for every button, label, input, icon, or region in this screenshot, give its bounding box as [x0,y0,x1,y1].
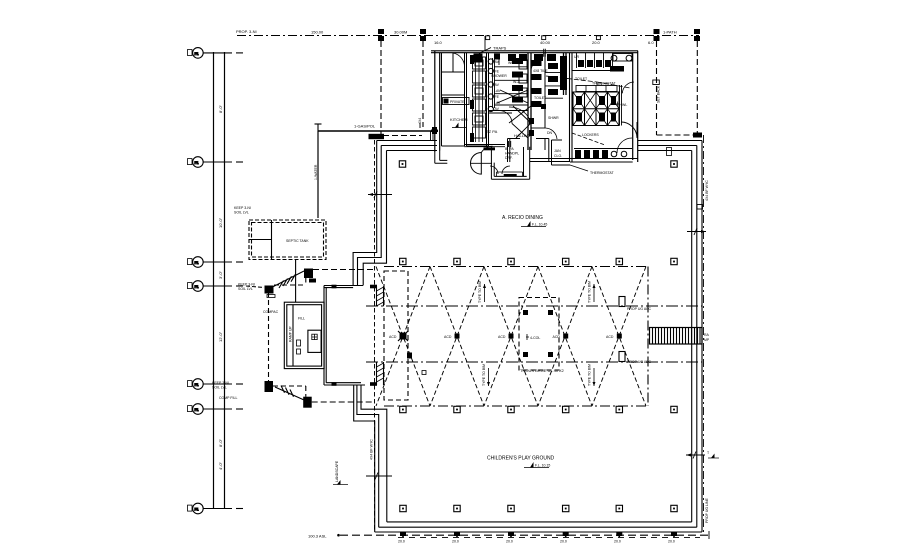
svg-text:ACD: ACD [606,335,614,339]
svg-text:SOIL LVL: SOIL LVL [212,386,227,390]
stage bottom wall [324,383,365,385]
gate symbol on dashed line [653,80,660,85]
svg-text:M-1: M-1 [596,82,602,86]
column r2c1 [400,258,406,264]
ramp label block [289,325,293,342]
svg-text:PROP UG ABC: PROP UG ABC [627,307,652,311]
marker square C [304,269,313,279]
svg-text:KITCHEN: KITCHEN [450,117,468,122]
svg-text:A. RECIO DINING: A. RECIO DINING [502,215,543,221]
small elbow mark [667,148,672,156]
hallway walls [508,139,549,163]
svg-text:4'-0": 4'-0" [218,461,223,470]
left landscape level symbol [333,484,348,486]
kitchen top-left cells [442,53,466,95]
prop line tick squares [486,36,601,40]
kitchen bottom wall [467,145,489,147]
stall heavy verticals [493,58,495,108]
svg-text:F1: F1 [195,261,199,265]
hall horizontal centerline upper [366,305,702,307]
svg-text:6.0: 6.0 [648,40,654,45]
ramp plus box [312,334,317,339]
truss diagonal 4b [538,267,592,407]
property line top (dashed) [237,35,699,37]
svg-text:TYPE TO BIM: TYPE TO BIM [482,364,486,386]
truss label below center rect [520,368,565,373]
stage left wall [324,286,326,386]
lavs attached center wall left [519,60,527,97]
truss crossing marker 5 [617,334,622,339]
wpa text block [505,147,519,160]
black mark 4A [610,66,624,72]
bottom fixtures row right [575,150,608,158]
column r3c5 [616,406,622,412]
svg-text:8'-0": 8'-0" [218,438,223,447]
svg-text:4X8 TILE: 4X8 TILE [533,69,548,73]
corner dashed line below gas line [383,135,422,137]
kitchen door half-disc [470,153,481,175]
septic tank inner divider vertical [271,220,273,260]
septic tank label [286,239,309,243]
svg-text:30.00M: 30.00M [394,30,407,35]
locker diag dash [546,76,597,82]
svg-text:8'-0": 8'-0" [218,104,223,113]
svg-text:20.0: 20.0 [560,540,567,544]
left landscape rotated label [335,460,339,482]
bottom dimension line second [398,536,700,538]
column r4c2 [454,505,460,511]
vestibule threshold black bar [504,174,517,176]
grid bubble 3 [188,257,244,268]
door arc top right room [622,82,634,93]
stage wall tick marks [332,285,378,386]
kitchen level symbol [452,127,467,129]
truss right edge [647,267,649,407]
svg-text:COMPAC: COMPAC [263,310,279,314]
svg-text:40.00: 40.00 [540,40,551,45]
left wall tick arrow y194 [368,191,392,198]
dashed vertical from marker 697 [696,41,698,135]
right wall rotated label [705,180,709,201]
svg-text:KEEP 3-NI: KEEP 3-NI [234,206,251,210]
column r2c5 [616,258,622,264]
door diagonals right room [572,133,605,145]
left wall rotated label mid [370,439,374,460]
ladder stair hatch right [650,328,703,345]
svg-text:F1: F1 [195,161,199,165]
svg-text:SET BACK: SET BACK [657,85,661,103]
svg-text:FE: FE [495,70,500,74]
heavy wall x563-566 [564,53,567,95]
stage right pier hatch bottom [377,363,384,382]
playground label [487,456,555,462]
thermostat label [590,171,614,175]
ramp inner wall [292,305,294,366]
truss crossing marker 3 [509,334,514,339]
door arc women [499,111,512,124]
leader diagonal bottom [275,386,304,400]
ramp small marks [297,340,301,346]
svg-text:PROP UG ABC: PROP UG ABC [627,360,652,364]
gas line tick top [317,124,319,132]
leader diagonal top [269,271,304,289]
svg-text:FILL: FILL [298,317,305,321]
dining hall label [502,215,543,221]
column r3c2 [454,406,460,412]
prop line dim texts [311,30,677,46]
truss rotated label br [588,364,592,386]
door arc lockers [621,122,637,138]
svg-text:F1: F1 [195,285,199,289]
svg-text:SHOWER: SHOWER [491,74,507,78]
marker where dashes meet wall [693,133,702,138]
marker square B [265,381,274,392]
center rect col c [523,352,528,357]
wc stall partitions left [494,67,528,105]
svg-text:MP: MP [704,338,710,342]
stalls right of 545 [545,72,563,98]
right wall small rect symbol [697,205,703,210]
gas line label [354,124,376,129]
svg-text:TRAPS: TRAPS [493,46,507,51]
block outer right wall [633,51,638,162]
LP black label block [369,134,385,139]
locker label [582,133,599,137]
svg-text:F1: F1 [195,408,199,412]
svg-text:ACD: ACD [498,335,506,339]
kitchen inner bottom wall [464,145,505,147]
column r2c6 [671,258,677,264]
truss diagonal 5b [592,267,646,407]
block bottom wall left segment [442,145,465,147]
urinal fixtures [578,60,611,67]
right wall tick arrow y455 [686,452,705,459]
truss rotated label tr [588,281,592,303]
block bottom wall mid segment [530,159,570,162]
right wall rotated label bottom [705,498,709,523]
hall top wall left segment [377,141,437,151]
svg-text:KEEP 3-NI: KEEP 3-NI [238,283,255,287]
column r1c1 [399,161,405,167]
svg-text:1-PATH: 1-PATH [663,30,677,35]
block outer top wall [431,51,638,53]
svg-text:AV: AV [495,83,500,87]
door arc mid [531,60,542,71]
grid bubble 5 [188,379,244,390]
column r4c6 [671,505,677,511]
small black mark on left bay [407,353,412,359]
truss diagonal 5a [592,267,646,407]
svg-text:20.0: 20.0 [614,540,621,544]
hall left wall line inner with jogs [361,151,387,522]
truss ACD labels [389,335,614,339]
truss crossing marker 2 [455,334,460,339]
kitchen threshold black bar [484,147,496,150]
center rect col a [523,310,528,315]
grid bubble 1 [188,48,244,59]
locker grid [573,92,619,126]
svg-text:20.0: 20.0 [668,540,675,544]
ramp structure outer [284,302,324,368]
kitchen inner left wall [441,53,443,146]
svg-text:LAV: LAV [494,89,501,93]
block corner black cluster [474,54,501,63]
extra marks center corridor [529,104,546,136]
column r3c1 [400,406,406,412]
truss diagonal 4a [538,267,592,407]
svg-text:F.L. 10.45: F.L. 10.45 [532,223,547,227]
plumbing ticks [509,141,511,147]
water line rotated label [314,164,318,180]
ez pa label [486,129,498,134]
dashed vertical from marker 381 [380,41,382,134]
dash from marker D to wall [312,401,375,403]
roof drain symbol upper [619,297,625,307]
locker black cells [576,96,616,122]
svg-text:KEEP 3-NI: KEEP 3-NI [212,381,229,385]
av fe tiny labels [495,60,500,111]
column r3c6 [671,406,677,412]
column r4c1 [400,505,406,511]
svg-text:100.3 ASL: 100.3 ASL [308,534,327,539]
grid bubble 2 [188,157,244,168]
top fixtures row middle [508,54,556,61]
dashed vertical from marker 423 [422,41,424,127]
svg-text:ACD: ACD [389,335,397,339]
svg-text:3'-0": 3'-0" [218,270,223,279]
svg-text:CLO.: CLO. [554,154,562,158]
block bottom wall right segment [570,159,638,163]
svg-text:DRF.: DRF. [505,156,513,160]
kitchen corner door arc [453,53,465,67]
lav counter top right [613,54,632,62]
svg-text:20.0: 20.0 [452,540,459,544]
column r4c4 [563,505,569,511]
center rect label [530,336,540,340]
svg-text:EZ PA: EZ PA [486,129,498,134]
svg-text:W-2: W-2 [513,80,519,84]
block outer left wall [435,51,440,152]
door leaf diagonals hallway [512,123,531,138]
truss diagonal 1b [376,267,430,407]
kitchen label [450,117,468,122]
top wall ticks [544,49,546,57]
svg-text:FE: FE [495,95,500,99]
roof drain symbol lower [619,352,625,362]
vertical tick from prop line to block [484,36,486,51]
truss diagonal 2a [430,267,484,407]
septic tank dashed rect [249,220,326,260]
svg-text:DN: DN [547,131,553,135]
center rect col d [548,352,553,357]
svg-text:SOIL LVL: SOIL LVL [234,211,249,215]
dash elbow top [274,278,306,286]
svg-text:20.0: 20.0 [398,540,405,544]
vestibule inner step [497,172,523,176]
kitchen door swing arc [481,146,492,152]
locker bench row [576,86,617,92]
truss diagonal 3b [484,267,538,407]
dash elbow bottom [273,386,306,397]
vestibule door arcs [490,166,498,174]
svg-text:F1: F1 [195,52,199,56]
septic tank drop line [295,260,297,303]
wires into kitchen [431,131,434,141]
svg-text:PRIVATE: PRIVATE [450,100,465,104]
hall left wall line mid with jogs [357,146,381,528]
column r4c3 [508,505,514,511]
column r2c4 [563,258,569,264]
mid room wall x545 [544,53,546,150]
gas line vertical x318 [317,131,319,218]
svg-text:JAN: JAN [554,149,561,153]
dashed horizontal connecting 653-697 [657,134,701,136]
truss crossing marker 4 [563,334,568,339]
grid bubble 6 [188,404,244,415]
stage right pier hatch top [377,287,384,306]
svg-text:4X4 BF WYC: 4X4 BF WYC [705,180,709,201]
svg-text:TYPE TO BIM: TYPE TO BIM [588,364,592,386]
ladder label [704,333,710,342]
truss diagonal 1a [376,267,430,407]
marker square A [265,286,274,294]
tick at x420 [419,123,421,128]
grid line A verticals [213,52,215,509]
small rotated label at 420 [418,118,422,124]
kitchen right wall [465,53,467,146]
column r3c4 [563,406,569,412]
svg-text:4X4 BF WYC: 4X4 BF WYC [370,439,374,460]
stage area dashed vertical x268 [268,292,270,382]
svg-text:UR: UR [574,55,580,59]
svg-text:+WL: +WL [620,103,627,107]
dining level symbol [521,221,547,227]
truss top chord line [384,266,648,268]
truss rotated label bl [482,364,486,386]
stage right wall lines [377,286,384,385]
column r2c3 [508,258,514,264]
prop line marker at 697 [694,29,700,41]
hallway label [514,133,533,138]
center heavy wall x528-531 [528,53,531,150]
truss rotated label tl [478,281,482,303]
kitchen lower left walls [435,151,448,164]
center rect col b [548,310,553,315]
svg-text:LAV: LAV [494,101,501,105]
svg-text:B. PA: B. PA [505,147,514,151]
right wall tick arrow y231 [687,228,706,235]
kitchen equipment band [473,57,486,138]
svg-text:ACD: ACD [444,335,452,339]
bottom dim tick marks [403,532,674,538]
hall top wall right segment [638,141,702,151]
bottom dimension line [337,534,340,537]
hall left wall line outer with jogs [353,141,377,533]
wl level [620,103,627,107]
svg-text:10'-0": 10'-0" [218,217,223,228]
truss diagonal 3a [484,267,538,407]
svg-text:PROP. 3-NI: PROP. 3-NI [236,29,257,34]
column r3c3 [508,406,514,412]
svg-text:TOILET: TOILET [575,77,588,81]
tiny room texts [491,55,602,135]
svg-text:16.0: 16.0 [434,40,443,45]
gas line horizontal y131 [318,130,437,132]
svg-text:SEPTIC TANK: SEPTIC TANK [286,239,309,243]
svg-text:150.00: 150.00 [311,30,324,35]
block left outside marks [432,127,437,134]
urinal partitions [577,53,613,68]
hall right wall [692,141,702,533]
svg-text:SOIL LVL: SOIL LVL [238,287,253,291]
right wall dash-dot overlay [703,135,705,534]
property line label [236,29,257,34]
hall bottom wall [375,522,702,532]
svg-text:TYPE TO BIM: TYPE TO BIM [478,281,482,303]
locker right wall [620,85,622,126]
center wall fixtures right [532,60,542,107]
svg-text:SHWR: SHWR [548,116,559,120]
thermostat label upper [592,82,616,86]
svg-text:20.0: 20.0 [592,40,601,45]
grid bubble 7 [188,503,244,514]
grid bubble 4 [188,281,244,292]
column r2c2 [454,258,460,264]
door swing X middle [509,106,531,123]
svg-text:12'-0": 12'-0" [218,331,223,342]
second door X [497,90,528,103]
bottom dim end tick [708,531,710,539]
svg-text:1-GAS/POL: 1-GAS/POL [354,124,376,129]
kitchen equip black marks [470,55,474,142]
septic tank inner divider horizontal [249,239,272,241]
private label box [443,98,470,105]
prop line marker at 656 [654,29,660,41]
men room partition y72 [572,70,613,72]
wc toilets left [512,58,523,103]
grid dimension texts (rotated) [218,104,223,470]
hall horizontal centerline lower [366,361,702,363]
truss crossing marker 1 [400,333,407,340]
svg-text:TYPE TO BIM: TYPE TO BIM [588,281,592,303]
hall left wall dashed [374,140,376,531]
bottom dim texts [398,540,675,544]
svg-text:F.L. 10.15: F.L. 10.15 [535,464,550,468]
bottom dimension line label [308,534,327,539]
svg-text:20.0: 20.0 [506,540,513,544]
truss left dashed bay rect [384,271,408,400]
ramp inner box [308,330,321,352]
left wall tick arrow y476 [366,473,392,480]
svg-text:F1: F1 [195,383,199,387]
trap label [493,46,507,51]
small mark below [422,371,426,375]
svg-text:HANDPL: HANDPL [505,152,519,156]
column r4c5 [616,505,622,511]
equipment band stripes [476,57,483,142]
svg-text:1-WATER: 1-WATER [314,164,318,180]
jan clo room [552,140,571,165]
svg-text:RAMP UP: RAMP UP [289,325,293,342]
wall x569-572 [570,53,573,162]
bottom dim tick squares [400,532,677,536]
center dashed column rect [519,298,559,371]
svg-text:F1: F1 [195,507,199,511]
svg-text:LOCKERS: LOCKERS [582,133,599,137]
svg-text:THERMOSTAT: THERMOSTAT [590,171,614,175]
svg-text:WC: WC [508,61,514,65]
stage top wall [324,286,363,288]
